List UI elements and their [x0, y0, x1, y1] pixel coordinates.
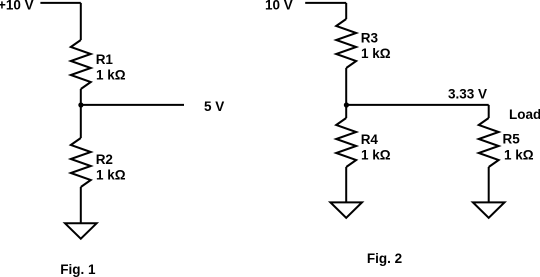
- svg-text:1 kΩ: 1 kΩ: [361, 46, 391, 61]
- svg-text:1 kΩ: 1 kΩ: [96, 68, 126, 83]
- resistor R2: [71, 138, 91, 187]
- svg-text:1 kΩ: 1 kΩ: [96, 168, 126, 183]
- ground (Fig.2 left): [330, 202, 362, 217]
- svg-text:1 kΩ: 1 kΩ: [361, 148, 391, 163]
- resistor R5: [479, 118, 499, 167]
- junction node Fig.2 output: [344, 102, 349, 107]
- svg-text:R5: R5: [503, 132, 521, 147]
- wire vertical corner to R5 top: [488, 105, 490, 118]
- wire vertical R3 bottom to R4 top: [345, 68, 347, 118]
- wire horizontal output node to load branch: [346, 104, 489, 106]
- resistor R3: [336, 19, 356, 68]
- svg-text:3.33 V: 3.33 V: [448, 87, 487, 102]
- wire top horizontal Fig.2: [305, 2, 346, 4]
- wire vertical R1 bottom to R2 top: [80, 89, 82, 138]
- resistor R1: [71, 40, 91, 89]
- svg-text:R1: R1: [96, 52, 114, 67]
- resistor R4: [336, 118, 356, 167]
- junction node Fig.1 output: [78, 102, 83, 107]
- svg-text:Load: Load: [509, 107, 540, 122]
- wire vertical R5 bottom to ground: [488, 167, 490, 202]
- svg-text:5 V: 5 V: [204, 99, 224, 114]
- svg-text:R2: R2: [96, 152, 113, 167]
- wire top horizontal Fig.1: [40, 2, 80, 4]
- svg-text:Fig. 2: Fig. 2: [367, 251, 402, 266]
- wire vertical from supply to R3 top: [345, 3, 347, 19]
- wire vertical R2 bottom to ground: [80, 187, 82, 223]
- svg-text:+10 V: +10 V: [0, 0, 34, 13]
- svg-text:1 kΩ: 1 kΩ: [504, 148, 534, 163]
- ground (Fig.1): [65, 223, 97, 238]
- ground (Fig.2 right): [473, 202, 505, 217]
- svg-text:R3: R3: [361, 31, 379, 46]
- wire vertical R4 bottom to ground: [345, 167, 347, 202]
- wire vertical from supply to R1 top: [80, 3, 82, 40]
- svg-text:Fig. 1: Fig. 1: [60, 262, 96, 277]
- wire horizontal output node to 5V tap: [81, 104, 184, 106]
- svg-text:R4: R4: [361, 132, 379, 147]
- svg-text:10 V: 10 V: [265, 0, 293, 13]
